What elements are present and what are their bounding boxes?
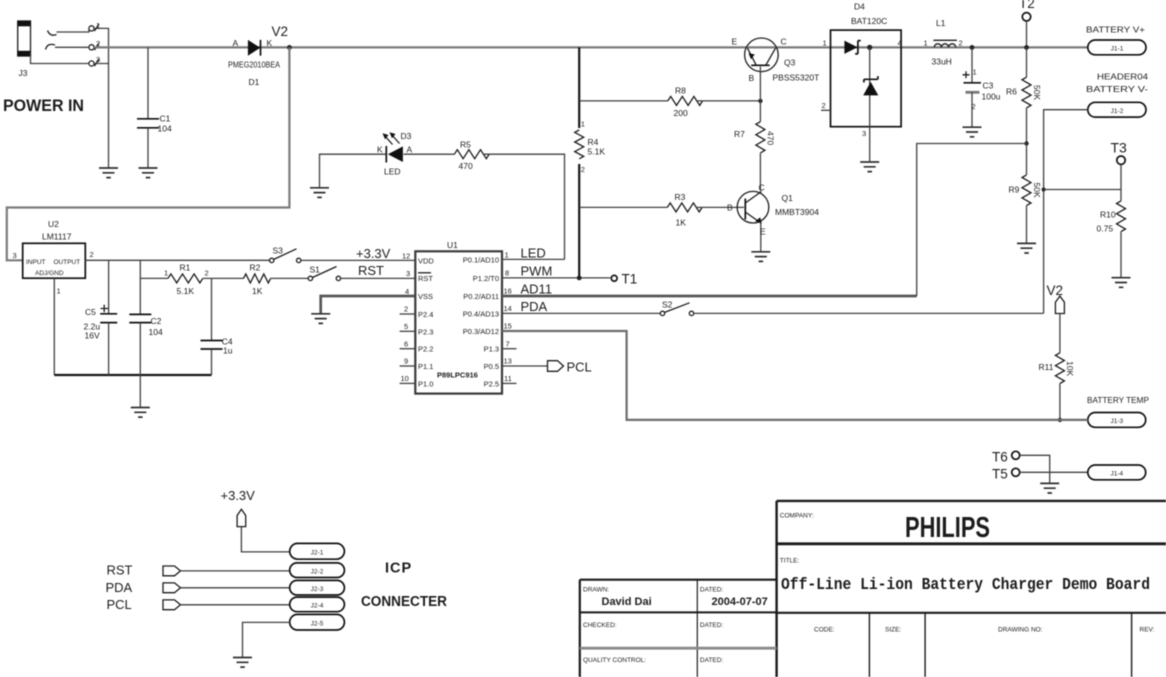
switch S2 — [660, 300, 693, 316]
svg-text:BATTERY V+: BATTERY V+ — [1086, 25, 1145, 35]
svg-text:E: E — [732, 37, 738, 47]
svg-text:PMEG2010BEA: PMEG2010BEA — [228, 60, 280, 70]
svg-text:E: E — [760, 227, 766, 237]
pin 3 of J3 — [89, 55, 100, 66]
net tag PCL — [548, 360, 592, 375]
junction (C3 tap) — [970, 45, 975, 50]
pin 15 wire battery temp net — [502, 322, 1088, 420]
svg-text:Off-Line Li-ion Battery Charge: Off-Line Li-ion Battery Charger Demo Boa… — [781, 576, 1150, 595]
svg-text:6: 6 — [404, 339, 408, 348]
capacitor C2 104 — [129, 260, 163, 375]
svg-text:1: 1 — [973, 68, 977, 77]
svg-text:16: 16 — [504, 287, 512, 296]
switch S1 — [308, 265, 340, 281]
wire T6 to ground drop — [1020, 455, 1050, 483]
svg-text:3: 3 — [406, 269, 410, 278]
pin 1 wire LED net — [502, 246, 565, 261]
svg-text:J2-1: J2-1 — [311, 550, 324, 557]
wire LED cathode to ground drop — [320, 154, 387, 187]
svg-text:TITLE:: TITLE: — [780, 558, 800, 565]
svg-text:P1.3: P1.3 — [484, 345, 499, 354]
svg-text:1u: 1u — [223, 346, 233, 356]
ground (J3 pins) — [99, 168, 118, 178]
svg-text:D3: D3 — [401, 131, 412, 141]
svg-text:10K: 10K — [1065, 361, 1075, 376]
wire +3.3V to J2-1 — [241, 527, 289, 552]
svg-text:T2: T2 — [1019, 0, 1035, 11]
resistor R3 1K — [667, 192, 702, 228]
svg-text:V2: V2 — [272, 24, 289, 39]
wire hook2 to pin 2 — [55, 46, 89, 48]
svg-text:DRAWING NO:: DRAWING NO: — [998, 627, 1043, 634]
ground (C3) — [963, 127, 982, 137]
wire R3 to Q1 base — [696, 206, 744, 208]
svg-text:CODE:: CODE: — [814, 627, 835, 634]
pin 10 stub P1.0 — [400, 374, 416, 383]
pin 1 of J3 — [89, 21, 100, 31]
wire main rail from pin 2 to J1-1 — [94, 46, 1088, 48]
svg-text:QUALITY CONTROL:: QUALITY CONTROL: — [583, 657, 646, 664]
connector J2-1 — [290, 543, 345, 559]
svg-text:5: 5 — [404, 322, 408, 331]
wire U2 output to S3 — [85, 259, 269, 261]
connector J1-2 BATTERY V- — [1086, 72, 1148, 118]
title block code/size/drawing/rev labels — [814, 627, 1155, 634]
svg-text:470: 470 — [459, 161, 473, 171]
svg-text:100u: 100u — [982, 92, 1001, 102]
svg-text:BAT120C: BAT120C — [851, 16, 887, 26]
svg-text:J2-2: J2-2 — [311, 568, 324, 575]
svg-text:R10: R10 — [1100, 210, 1116, 220]
svg-text:T6: T6 — [992, 450, 1008, 465]
svg-text:104: 104 — [149, 327, 163, 337]
resistor R11 10K — [1039, 314, 1076, 420]
wire bottom rail — [54, 374, 211, 376]
switch S3 — [270, 246, 301, 263]
wire PDA tag to J2-3 — [181, 587, 290, 589]
ground (T5/T6) — [1040, 483, 1059, 493]
svg-text:3: 3 — [13, 251, 17, 260]
title block company cell — [780, 512, 990, 544]
svg-text:104: 104 — [158, 124, 172, 134]
svg-text:R3: R3 — [675, 192, 686, 202]
wire S1 to U1 RST pin — [341, 277, 416, 279]
svg-text:1: 1 — [581, 120, 585, 129]
svg-text:David Dai: David Dai — [602, 596, 652, 608]
wire LED anode to R5 — [404, 153, 455, 155]
svg-text:P0.3/AD12: P0.3/AD12 — [463, 327, 499, 336]
net tag PDA (ICP) — [106, 580, 181, 595]
svg-text:C: C — [781, 37, 787, 47]
svg-text:12: 12 — [402, 252, 410, 261]
svg-text:OUTPUT: OUTPUT — [54, 259, 81, 266]
svg-text:P2.5: P2.5 — [484, 379, 499, 388]
svg-text:33uH: 33uH — [932, 57, 952, 67]
svg-text:BATTERY TEMP: BATTERY TEMP — [1087, 395, 1149, 405]
wire C2 node down to ground — [139, 375, 141, 408]
connector J1-1 BATTERY V+ — [1086, 25, 1146, 55]
svg-text:J3: J3 — [19, 68, 28, 78]
svg-text:R5: R5 — [460, 140, 471, 150]
svg-text:K: K — [377, 145, 383, 155]
wire R2 to S1 — [271, 277, 309, 279]
ground (R9) — [1017, 243, 1036, 253]
svg-text:T3: T3 — [1111, 140, 1128, 156]
svg-text:15: 15 — [504, 322, 512, 331]
test point T2 — [1019, 0, 1035, 50]
svg-text:PBSS5320T: PBSS5320T — [773, 73, 820, 83]
svg-text:J2-5: J2-5 — [311, 620, 324, 627]
wire S3 to U1 VDD pin — [301, 259, 415, 261]
svg-text:T1: T1 — [622, 272, 638, 287]
pin 7 stub P1.3 — [502, 339, 517, 348]
pin 2 of J3 — [89, 39, 100, 50]
ground (D4 pin 3) — [860, 162, 879, 172]
svg-text:LED: LED — [384, 167, 401, 177]
junction (Q3 base / R7) — [758, 99, 762, 103]
svg-text:1: 1 — [57, 287, 61, 296]
ground (ICP J2-5) — [233, 658, 252, 668]
wire R5 to U1 LED pin — [483, 154, 565, 259]
connector J2-5 — [290, 614, 345, 630]
svg-text:R6: R6 — [1006, 87, 1017, 97]
svg-text:2: 2 — [404, 305, 408, 314]
connector J2-4 — [290, 597, 345, 612]
svg-text:2: 2 — [972, 102, 976, 111]
svg-text:DATED:: DATED: — [700, 657, 724, 664]
capacitor C5 2.2u 16V — [84, 260, 118, 375]
svg-text:LED: LED — [521, 246, 546, 261]
test point T1 — [611, 272, 637, 287]
wire S2 to J1-2 drop — [694, 312, 1044, 314]
svg-text:4: 4 — [898, 39, 902, 48]
svg-text:P2.2: P2.2 — [418, 345, 433, 354]
svg-text:RST: RST — [358, 263, 384, 278]
svg-text:P1.2/T0: P1.2/T0 — [473, 274, 499, 283]
test point T6 — [992, 450, 1020, 465]
wire RST tag to J2-2 — [181, 570, 290, 572]
wire +3.3V node to R1 — [140, 277, 168, 279]
svg-text:POWER IN: POWER IN — [3, 96, 84, 115]
svg-text:S1: S1 — [310, 265, 321, 275]
junction (R6/R9 divider tap) — [1024, 141, 1028, 145]
svg-text:RST: RST — [107, 563, 133, 578]
capacitor C3 100u — [963, 47, 1001, 127]
microcontroller U1 P89LPC916 — [415, 240, 502, 394]
transistor Q1 MMBT3904 — [727, 183, 819, 252]
svg-text:0.75: 0.75 — [1097, 224, 1114, 234]
resistor R8 200 — [668, 86, 703, 119]
svg-text:11: 11 — [504, 374, 512, 383]
svg-text:C3: C3 — [983, 81, 994, 91]
resistor R5 470 — [454, 140, 489, 172]
svg-text:A: A — [407, 145, 413, 155]
svg-text:VSS: VSS — [418, 292, 433, 301]
svg-text:RST: RST — [418, 274, 433, 283]
title block quality row — [583, 657, 723, 664]
svg-text:P1.0: P1.0 — [418, 379, 433, 388]
wire thick drop from rail to PWM node — [578, 47, 580, 278]
wire R1 to R2 — [203, 277, 244, 279]
svg-text:B: B — [727, 203, 733, 213]
svg-text:S3: S3 — [273, 246, 284, 256]
svg-text:V2: V2 — [1047, 283, 1064, 298]
connector J1-3 BATTERY TEMP — [1087, 395, 1149, 427]
svg-text:470: 470 — [766, 131, 776, 145]
svg-text:P1.1: P1.1 — [418, 362, 433, 371]
wire V2 node down and left to U2 input — [7, 47, 290, 260]
diode D1 PMEG2010BEA — [228, 38, 280, 87]
pin 6 stub P2.2 — [400, 339, 416, 348]
svg-text:B: B — [749, 73, 755, 83]
svg-text:P2.4: P2.4 — [418, 310, 433, 319]
resistor R10 0.75 — [1097, 190, 1126, 278]
svg-text:SIZE:: SIZE: — [885, 627, 901, 634]
svg-text:R8: R8 — [675, 86, 686, 96]
svg-text:T5: T5 — [992, 467, 1008, 482]
wire pin 3 to ground — [94, 64, 108, 169]
svg-text:D1: D1 — [249, 77, 260, 87]
title block checked row — [583, 622, 723, 629]
wire R8 to Q3 base — [696, 100, 760, 102]
capacitor C1 — [137, 47, 172, 168]
power net V2 tag — [1047, 283, 1065, 314]
svg-text:P0.4/AD13: P0.4/AD13 — [463, 309, 499, 318]
svg-text:+3.3V: +3.3V — [356, 246, 391, 261]
svg-text:Q1: Q1 — [782, 193, 794, 203]
svg-text:VDD: VDD — [418, 257, 434, 266]
svg-text:5.1K: 5.1K — [177, 286, 195, 296]
title block left table frame — [580, 580, 777, 677]
ground (LED D3) — [310, 188, 329, 198]
svg-text:P0.5: P0.5 — [484, 362, 499, 371]
svg-text:PCL: PCL — [567, 360, 592, 375]
svg-text:PDA: PDA — [521, 299, 548, 314]
svg-text:2: 2 — [822, 101, 826, 110]
svg-text:C1: C1 — [160, 114, 171, 124]
wire VSS to ground — [321, 296, 416, 314]
svg-text:PDA: PDA — [106, 580, 133, 595]
svg-text:J2-3: J2-3 — [311, 586, 324, 593]
svg-text:3: 3 — [862, 129, 866, 138]
resistor R9 50K — [1009, 144, 1043, 244]
connector J1-4 — [1088, 465, 1146, 480]
svg-text:C2: C2 — [151, 316, 162, 326]
net tag PCL (ICP) — [107, 597, 181, 612]
wire R3 branch — [579, 206, 667, 208]
ground (U1 VSS) — [311, 314, 330, 324]
svg-text:1: 1 — [823, 39, 827, 48]
svg-text:10: 10 — [401, 374, 409, 383]
wire J1-2 to PDA/S2 net — [1044, 110, 1088, 314]
resistor R6 50K — [1006, 47, 1042, 143]
svg-text:MMBT3904: MMBT3904 — [775, 207, 819, 217]
svg-text:CHECKED:: CHECKED: — [583, 622, 617, 629]
svg-text:J1-1: J1-1 — [1111, 46, 1124, 53]
svg-text:200: 200 — [674, 108, 688, 118]
ground (C2 / regulator) — [131, 408, 150, 418]
svg-text:REV:: REV: — [1140, 627, 1155, 634]
net tag RST (ICP) — [107, 563, 181, 578]
test point T3 — [1111, 140, 1128, 190]
wire U2 adj pin 1 down to bottom rail — [53, 278, 55, 375]
svg-text:J1-3: J1-3 — [1110, 418, 1123, 425]
title block frame — [777, 501, 1166, 677]
svg-text:R9: R9 — [1009, 185, 1020, 195]
svg-text:P2.3: P2.3 — [418, 327, 433, 336]
svg-text:R7: R7 — [734, 129, 745, 139]
wire J2-5 to ground — [243, 622, 290, 657]
svg-text:2: 2 — [581, 165, 585, 174]
pin 9 stub P1.1 — [400, 357, 416, 366]
pin 8 wire PWM net to T1 — [502, 264, 610, 279]
svg-text:COMPANY:: COMPANY: — [780, 513, 814, 520]
svg-text:J1-2: J1-2 — [1111, 108, 1124, 115]
svg-text:P89LPC916: P89LPC916 — [437, 371, 478, 380]
svg-text:S2: S2 — [662, 300, 673, 310]
power net +3.3V tag (ICP) — [221, 488, 256, 527]
connector J3 power jack — [18, 21, 57, 78]
title block drawn row — [583, 587, 768, 609]
svg-text:DATED:: DATED: — [700, 622, 724, 629]
pin 2 stub P2.4 — [400, 305, 416, 315]
svg-text:HEADER04: HEADER04 — [1097, 72, 1148, 82]
svg-text:16V: 16V — [85, 331, 100, 341]
wire PCL tag to J2-4 — [181, 604, 290, 606]
svg-text:R2: R2 — [250, 263, 261, 273]
pin 16 wire AD11 net — [502, 144, 1027, 297]
wire hook1 to pin 1 — [57, 28, 89, 32]
svg-text:D4: D4 — [854, 2, 865, 12]
pin 14 wire PDA net to S2 — [502, 299, 660, 314]
regulator U2 LM1117 — [13, 219, 94, 296]
inductor L1 33uH — [924, 18, 963, 67]
transistor Q3 PBSS5320T — [732, 37, 820, 101]
svg-text:U2: U2 — [48, 219, 59, 229]
ground (R10) — [1112, 278, 1131, 288]
pin 11 stub P2.5 — [502, 374, 517, 383]
svg-text:50K: 50K — [1032, 183, 1042, 198]
svg-text:8: 8 — [505, 269, 509, 278]
svg-text:2: 2 — [205, 269, 209, 278]
svg-text:1: 1 — [505, 251, 509, 260]
svg-text:AD11: AD11 — [521, 282, 553, 297]
svg-text:R4: R4 — [588, 137, 599, 147]
svg-text:P0.1/AD10: P0.1/AD10 — [463, 255, 499, 264]
svg-text:PCL: PCL — [107, 597, 132, 612]
ground (C1) — [139, 168, 158, 178]
wire branch to T3/R10 — [1044, 189, 1121, 191]
wire R8 branch — [579, 100, 668, 102]
svg-text:LM1117: LM1117 — [42, 232, 72, 242]
connector J2-2 — [290, 563, 345, 578]
wire pin 1 down to pin 3 node — [94, 28, 108, 63]
svg-text:K: K — [267, 38, 273, 48]
svg-text:ADJ/GND: ADJ/GND — [35, 270, 64, 277]
title block title cell — [780, 558, 1150, 596]
svg-text:14: 14 — [504, 304, 512, 313]
resistor R1 5.1K — [164, 263, 209, 297]
junction (R11 / battery temp net) — [1058, 418, 1062, 422]
svg-text:C: C — [759, 183, 765, 193]
svg-text:1: 1 — [164, 269, 168, 278]
svg-text:A: A — [233, 38, 239, 48]
svg-text:2: 2 — [90, 250, 94, 259]
junction (V2 drop) — [287, 45, 292, 50]
svg-text:1K: 1K — [676, 218, 687, 228]
svg-text:C5: C5 — [85, 307, 96, 317]
svg-text:2: 2 — [959, 39, 963, 48]
capacitor C4 1u — [201, 278, 233, 375]
test point T5 — [992, 467, 1020, 482]
svg-text:7: 7 — [506, 339, 510, 348]
svg-text:4: 4 — [405, 287, 409, 296]
svg-text:1: 1 — [924, 39, 928, 48]
connector J2-3 — [290, 580, 345, 595]
svg-text:13: 13 — [504, 357, 512, 366]
svg-text:PWM: PWM — [521, 264, 553, 279]
svg-text:+3.3V: +3.3V — [221, 488, 256, 503]
svg-text:L1: L1 — [936, 18, 946, 28]
wire T5 to J1-4 — [1020, 471, 1088, 473]
svg-text:5.1K: 5.1K — [588, 147, 606, 157]
svg-text:DRAWN:: DRAWN: — [583, 587, 609, 594]
svg-text:1K: 1K — [252, 286, 263, 296]
svg-text:J1-4: J1-4 — [1110, 471, 1123, 478]
svg-text:ICP: ICP — [385, 561, 412, 577]
resistor R4 5.1K (in drop) — [573, 120, 606, 175]
svg-text:PHILIPS: PHILIPS — [905, 512, 990, 544]
pin 5 stub P2.3 — [400, 322, 416, 331]
svg-text:2004-07-07: 2004-07-07 — [712, 596, 768, 608]
svg-text:U1: U1 — [447, 240, 458, 250]
svg-text:INPUT: INPUT — [26, 259, 46, 266]
pin 13 wire PCL tag — [502, 357, 548, 366]
svg-text:50K: 50K — [1032, 85, 1042, 100]
svg-text:P0.2/AD11: P0.2/AD11 — [463, 292, 499, 301]
diode module D4 BAT120C — [821, 2, 902, 163]
svg-text:R1: R1 — [180, 263, 191, 273]
svg-text:9: 9 — [404, 357, 408, 366]
svg-text:Q3: Q3 — [784, 58, 796, 68]
LED D3 — [377, 131, 413, 177]
resistor R7 470 — [734, 101, 776, 191]
resistor R2 1K — [244, 263, 271, 297]
ground (Q1 emitter) — [751, 252, 770, 262]
wire jack sleeve to pin 3 — [31, 53, 89, 64]
svg-text:R11: R11 — [1039, 362, 1054, 372]
junction (drop onto PWM) — [577, 276, 582, 281]
svg-text:BATTERY V-: BATTERY V- — [1086, 84, 1148, 94]
junction (J1-2 / R10 branch) — [1042, 188, 1046, 192]
svg-text:CONNECTER: CONNECTER — [361, 594, 447, 610]
svg-text:DATED:: DATED: — [700, 587, 724, 594]
svg-text:J2-4: J2-4 — [311, 603, 324, 610]
